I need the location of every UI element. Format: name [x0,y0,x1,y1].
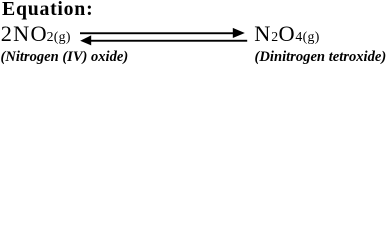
right label (Dinitrogen tetroxide) [255,50,387,65]
product N2O4(g) [254,23,319,45]
left label (Nitrogen (IV) oxide) [1,50,129,65]
forward arrow head [233,28,245,38]
reverse arrow head [80,35,91,45]
title "Equation:" [2,0,93,20]
forward arrow shaft (points right) [80,32,233,34]
equilibrium double arrows [78,26,250,48]
reverse arrow shaft (points left) [91,40,247,42]
reactant 2NO2(g) [1,23,71,45]
